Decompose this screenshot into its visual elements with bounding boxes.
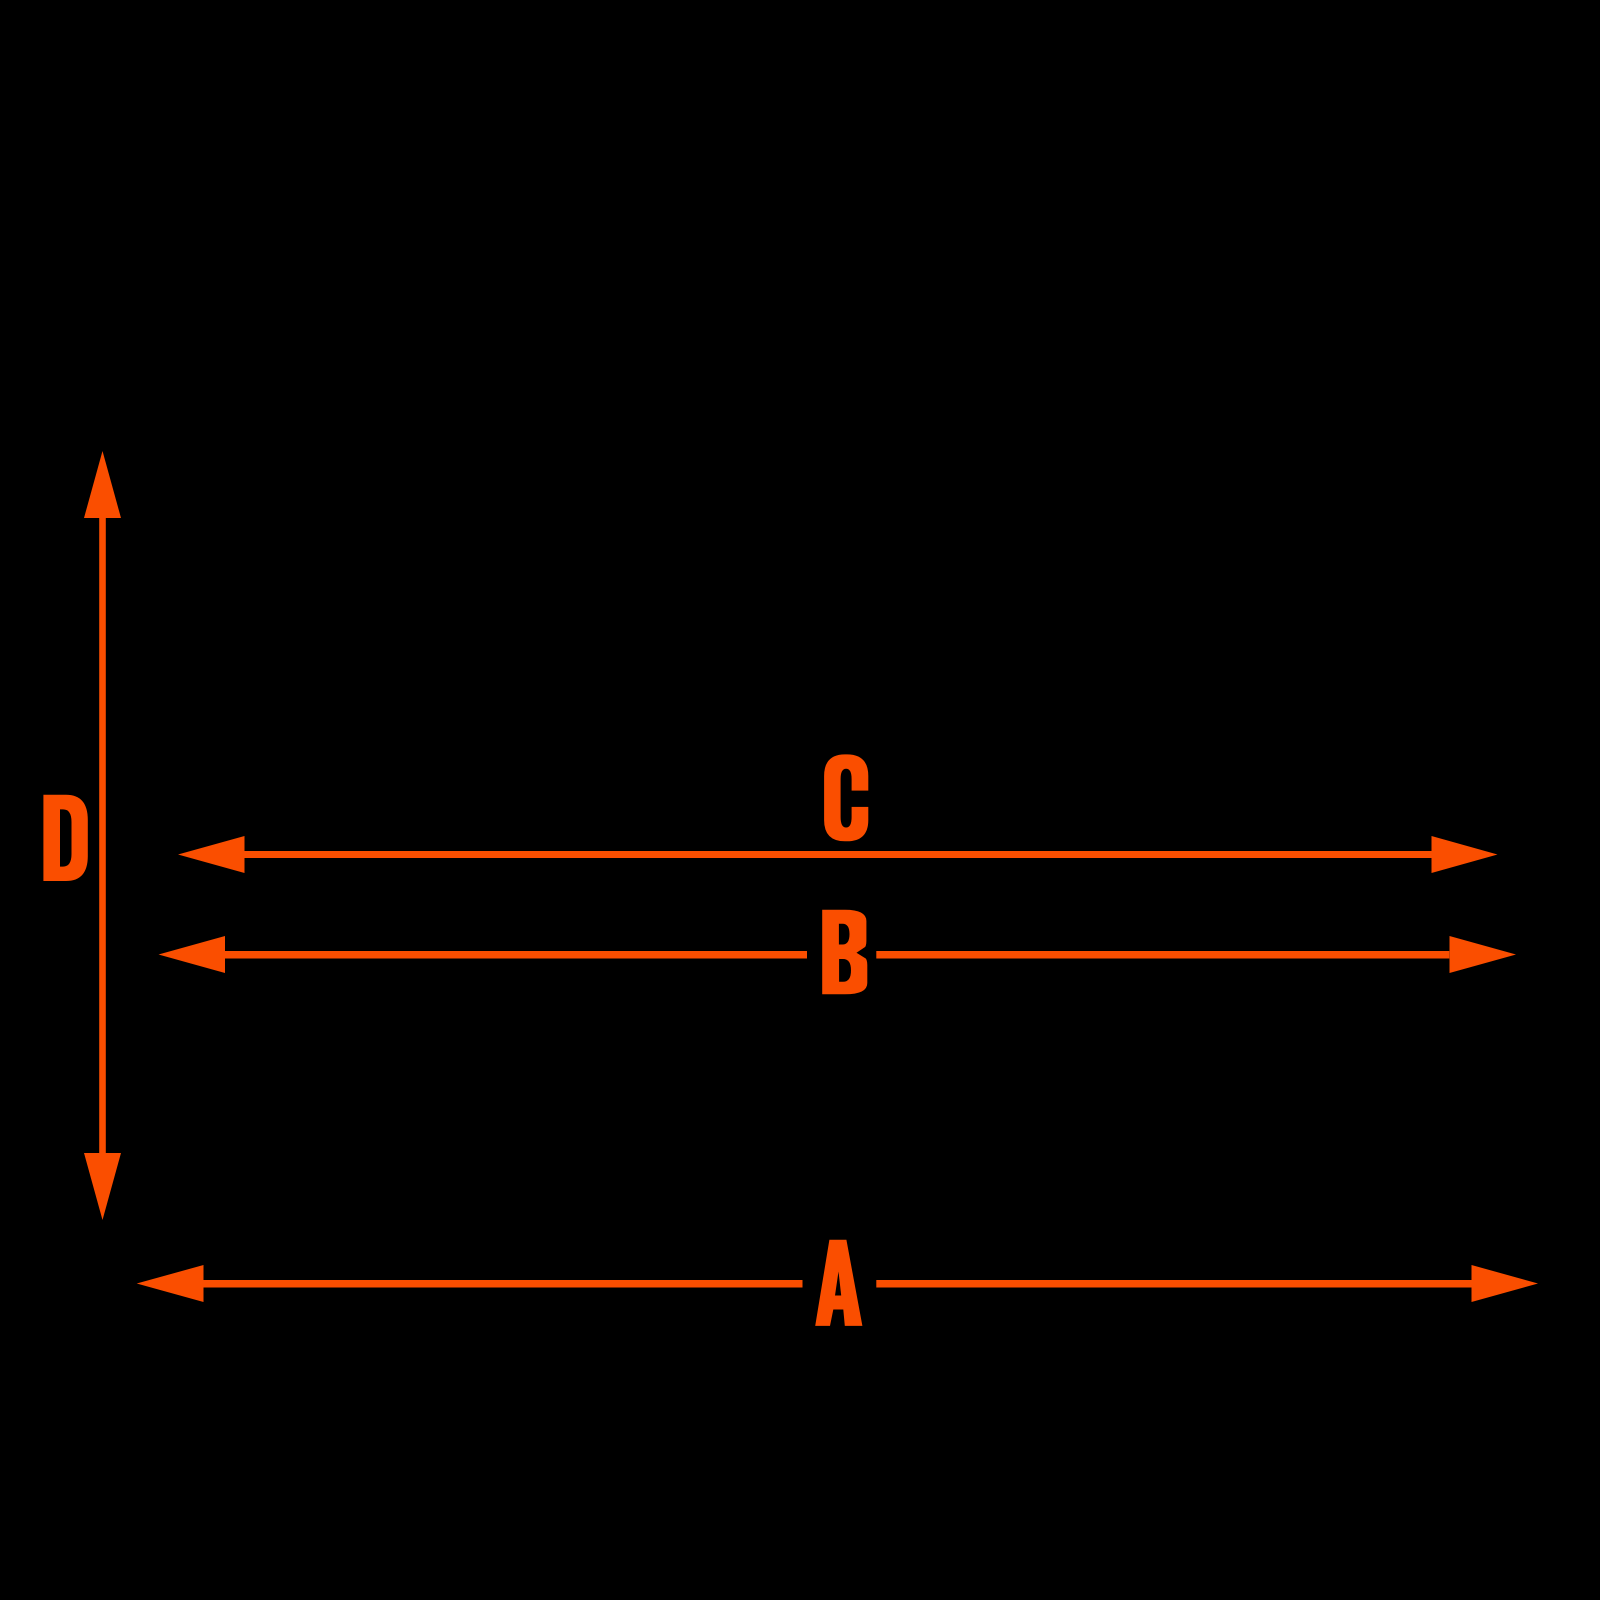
- wire B shaft right segment: [876, 951, 1449, 959]
- wire C shaft: [242, 851, 1434, 858]
- C right arrowhead: [1432, 836, 1498, 873]
- wire A shaft left segment: [202, 1280, 803, 1288]
- B left arrowhead: [159, 936, 226, 973]
- dimension arrow C (horizontal double-headed): [178, 836, 1498, 873]
- B right arrowhead: [1450, 936, 1517, 973]
- wire B shaft left segment: [223, 951, 807, 959]
- A right arrowhead: [1472, 1265, 1539, 1302]
- label D: [43, 795, 87, 881]
- label A: [815, 1240, 862, 1326]
- D top arrowhead: [84, 451, 121, 518]
- dimension arrow D (vertical double-headed): [84, 451, 121, 1220]
- label C: [824, 754, 869, 841]
- wire D shaft: [99, 514, 106, 1156]
- dimension arrow A (horizontal double-headed, broken shaft): [137, 1265, 1538, 1302]
- C left arrowhead: [178, 836, 245, 873]
- label B: [822, 910, 867, 995]
- wire A shaft right segment: [876, 1280, 1472, 1288]
- A left arrowhead: [137, 1265, 204, 1302]
- D bottom arrowhead: [84, 1153, 121, 1220]
- dimension arrow B (horizontal double-headed, broken shaft): [159, 936, 1517, 973]
